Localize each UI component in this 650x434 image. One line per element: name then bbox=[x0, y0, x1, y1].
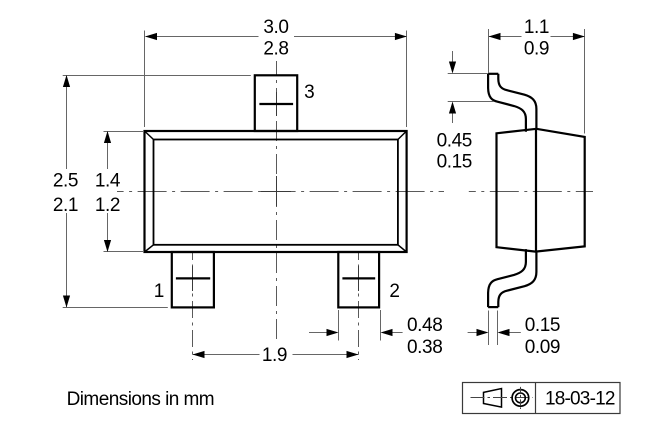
svg-text:1: 1 bbox=[154, 281, 164, 302]
svg-text:Dimensions in mm: Dimensions in mm bbox=[67, 389, 214, 410]
svg-text:1.1: 1.1 bbox=[524, 17, 549, 38]
svg-text:1.9: 1.9 bbox=[262, 345, 287, 366]
svg-text:0.38: 0.38 bbox=[407, 337, 442, 358]
svg-text:3.0: 3.0 bbox=[263, 17, 288, 38]
svg-text:2.5: 2.5 bbox=[53, 171, 78, 192]
svg-text:18-03-12: 18-03-12 bbox=[545, 388, 615, 409]
svg-text:0.15: 0.15 bbox=[525, 315, 560, 336]
svg-text:0.9: 0.9 bbox=[524, 38, 549, 59]
svg-text:3: 3 bbox=[304, 82, 314, 103]
svg-text:2.1: 2.1 bbox=[53, 195, 78, 216]
svg-text:0.45: 0.45 bbox=[437, 131, 472, 152]
svg-text:0.48: 0.48 bbox=[407, 315, 442, 336]
svg-text:1.4: 1.4 bbox=[95, 171, 121, 192]
svg-text:0.15: 0.15 bbox=[437, 151, 472, 172]
svg-text:2.8: 2.8 bbox=[263, 38, 288, 59]
svg-text:1.2: 1.2 bbox=[95, 195, 120, 216]
svg-text:2: 2 bbox=[389, 281, 399, 302]
svg-text:0.09: 0.09 bbox=[525, 337, 560, 358]
